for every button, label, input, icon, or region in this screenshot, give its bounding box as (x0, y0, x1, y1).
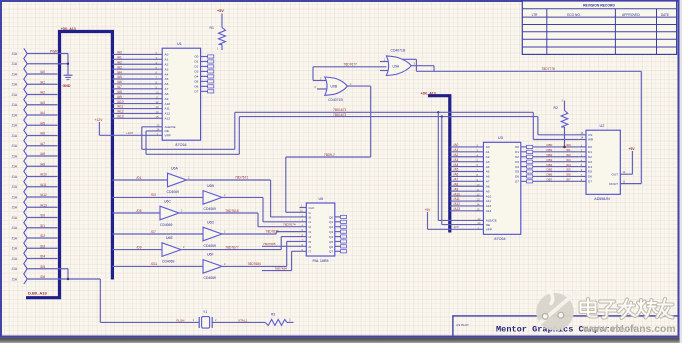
svg-text:U6A: U6A (171, 166, 178, 170)
svg-text:O7: O7 (515, 180, 519, 184)
svg-text:CD4071B: CD4071B (391, 49, 406, 53)
svg-text:I5: I5 (309, 240, 312, 244)
svg-text:J1A: J1A (12, 216, 18, 220)
svg-text:O4: O4 (515, 165, 519, 169)
svg-text:VPP: VPP (165, 134, 171, 138)
svg-text:J1A: J1A (12, 154, 18, 158)
svg-text:/A5: /A5 (117, 75, 122, 79)
svg-text:Q7: Q7 (329, 250, 333, 254)
svg-text:OE: OE (165, 129, 169, 133)
svg-text:J1A: J1A (12, 257, 18, 261)
svg-text:J1A: J1A (12, 247, 18, 251)
svg-text:U6F: U6F (207, 253, 214, 257)
svg-text:PAL 16R8: PAL 16R8 (313, 259, 329, 263)
svg-text:78D7615: 78D7615 (225, 209, 239, 213)
svg-text:/D1: /D1 (566, 148, 571, 152)
svg-text:/A5: /A5 (454, 168, 459, 172)
svg-text:+D0..A13: +D0..A13 (421, 92, 436, 96)
svg-text:/A4: /A4 (117, 70, 122, 74)
svg-text:/A8: /A8 (454, 182, 459, 186)
svg-text:J1A: J1A (12, 277, 18, 281)
svg-text:87C64: 87C64 (175, 143, 186, 147)
svg-text:J1A: J1A (12, 226, 18, 230)
svg-text:DOUT: DOUT (609, 182, 618, 186)
svg-text:78D9-7: 78D9-7 (324, 153, 335, 157)
svg-text:78D1671: 78D1671 (333, 108, 347, 112)
svg-text:/A3: /A3 (454, 158, 459, 162)
svg-text:O3: O3 (515, 160, 519, 164)
svg-text:VPP: VPP (486, 228, 492, 232)
svg-text:U6E: U6E (166, 236, 173, 240)
svg-text:CD4069: CD4069 (204, 244, 217, 248)
svg-text:+5V: +5V (425, 208, 432, 212)
svg-text:R3: R3 (271, 313, 275, 317)
svg-text:AD558JN: AD558JN (594, 197, 610, 201)
svg-text:/A12: /A12 (117, 110, 124, 114)
svg-text:/A11: /A11 (117, 105, 124, 109)
svg-text:O3: O3 (194, 70, 198, 74)
svg-text:O1: O1 (515, 150, 519, 154)
svg-text:/D3: /D3 (40, 244, 45, 248)
svg-text:/A0: /A0 (40, 70, 45, 74)
svg-text:/D4: /D4 (40, 255, 45, 259)
svg-text:O0: O0 (515, 145, 519, 149)
svg-text:U5: U5 (319, 197, 324, 201)
svg-text:/D9: /D9 (137, 245, 142, 249)
svg-text:U2: U2 (600, 124, 605, 128)
svg-text:CLK: CLK (309, 206, 315, 210)
svg-text:/D5: /D5 (566, 168, 571, 172)
svg-text:/A11: /A11 (40, 183, 47, 187)
svg-text:O1: O1 (194, 60, 198, 64)
svg-text:/A0: /A0 (454, 143, 459, 147)
svg-text:/D3: /D3 (151, 193, 156, 197)
svg-text:/D1: /D1 (40, 224, 45, 228)
svg-text:GND: GND (63, 84, 71, 88)
svg-text:Y1: Y1 (203, 310, 207, 314)
svg-text:/D2: /D2 (40, 234, 45, 238)
svg-text:A10: A10 (165, 102, 171, 106)
svg-text:REVISION RECORD: REVISION RECORD (583, 4, 615, 8)
svg-text:DB2: DB2 (547, 153, 553, 157)
svg-text:/A2: /A2 (40, 91, 45, 95)
svg-text:DB0: DB0 (547, 143, 553, 147)
svg-text:J1A: J1A (12, 175, 18, 179)
svg-text:87C64: 87C64 (494, 237, 505, 241)
svg-text:+12V: +12V (95, 118, 104, 122)
svg-text:I3: I3 (309, 230, 312, 234)
svg-text:/A4: /A4 (40, 111, 45, 115)
svg-text:/A9: /A9 (40, 162, 45, 166)
svg-text:/A12: /A12 (40, 193, 47, 197)
svg-text:+12V: +12V (126, 131, 133, 135)
svg-text:/A7: /A7 (117, 85, 122, 89)
svg-text:/A8: /A8 (40, 152, 45, 156)
svg-text:Q1: Q1 (329, 220, 333, 224)
svg-text:A12: A12 (165, 112, 171, 116)
svg-text:D5: D5 (588, 170, 592, 174)
svg-text:A1: A1 (486, 150, 490, 154)
svg-text:CD4069: CD4069 (167, 190, 180, 194)
svg-text:ECO NO.: ECO NO. (567, 13, 581, 17)
svg-text:/A7: /A7 (454, 178, 459, 182)
svg-text:/D0: /D0 (566, 143, 571, 147)
svg-text:A0: A0 (486, 145, 490, 149)
svg-text:O0: O0 (194, 55, 198, 59)
svg-text:APPROVED: APPROVED (622, 13, 640, 17)
svg-text:/A9: /A9 (117, 95, 122, 99)
svg-text:O6: O6 (194, 85, 198, 89)
svg-text:O5: O5 (515, 170, 519, 174)
svg-text:/A12: /A12 (454, 202, 461, 206)
svg-text:/A10: /A10 (117, 100, 124, 104)
svg-text:/A6: /A6 (117, 80, 122, 84)
svg-text:78D7776: 78D7776 (542, 67, 556, 71)
svg-text:I6: I6 (309, 245, 312, 249)
svg-text:I0: I0 (309, 215, 312, 219)
svg-text:J1A: J1A (12, 124, 18, 128)
svg-text:/A13: /A13 (454, 207, 461, 211)
svg-text:J1A: J1A (12, 134, 18, 138)
svg-text:A1: A1 (165, 58, 169, 62)
svg-text:XTAL1: XTAL1 (238, 319, 248, 323)
svg-text:PWR: PWR (50, 50, 58, 54)
svg-text:CD4069: CD4069 (204, 207, 217, 211)
svg-text:/A2: /A2 (117, 60, 122, 64)
svg-text:U1: U1 (177, 42, 182, 46)
svg-text:/D4: /D4 (566, 163, 571, 167)
svg-text:J1A: J1A (12, 62, 18, 66)
svg-text:A0: A0 (165, 53, 169, 57)
svg-text:-12V: -12V (453, 225, 459, 229)
svg-text:A11: A11 (165, 107, 171, 111)
svg-text:A4: A4 (165, 72, 169, 76)
svg-text:J1A: J1A (12, 144, 18, 148)
svg-text:78D7677: 78D7677 (344, 63, 358, 67)
svg-text:/D1: /D1 (137, 176, 142, 180)
svg-text:A7: A7 (486, 180, 490, 184)
svg-text:R2: R2 (554, 106, 558, 110)
svg-text:A9: A9 (165, 97, 169, 101)
svg-text:D1: D1 (588, 150, 592, 154)
svg-text:J1A: J1A (12, 103, 18, 107)
svg-text:78D7671: 78D7671 (235, 176, 249, 180)
svg-text:/D5: /D5 (137, 209, 142, 213)
svg-text:I4: I4 (309, 235, 312, 239)
svg-text:/A4: /A4 (454, 163, 459, 167)
svg-text:A8: A8 (165, 92, 169, 96)
svg-text:CD4071B: CD4071B (328, 98, 343, 102)
svg-text:A2: A2 (486, 155, 490, 159)
svg-text:A2: A2 (165, 62, 169, 66)
svg-text:J1A: J1A (12, 185, 18, 189)
svg-text:+5V: +5V (629, 147, 636, 151)
svg-text:/A9: /A9 (454, 187, 459, 191)
svg-text:A11: A11 (486, 199, 492, 203)
svg-text:J1A: J1A (12, 206, 18, 210)
svg-text:Q0: Q0 (329, 215, 333, 219)
svg-text:J1A: J1A (12, 93, 18, 97)
svg-text:78D7674: 78D7674 (283, 222, 296, 226)
svg-text:78D7677: 78D7677 (225, 245, 239, 249)
svg-text:OUT: OUT (611, 172, 618, 176)
svg-text:U6D: U6D (207, 221, 214, 225)
svg-text:D4: D4 (588, 165, 592, 169)
svg-text:/D2: /D2 (566, 153, 571, 157)
svg-text:78D1672: 78D1672 (333, 113, 347, 117)
svg-text:+D0..A13: +D0..A13 (61, 27, 76, 31)
svg-text:J1A: J1A (12, 195, 18, 199)
svg-text:A6: A6 (165, 82, 169, 86)
svg-text:A5: A5 (486, 170, 490, 174)
svg-text:A13: A13 (165, 117, 171, 121)
svg-text:D2: D2 (588, 155, 592, 159)
svg-text:O2: O2 (194, 65, 198, 69)
svg-text:Q4: Q4 (329, 235, 333, 239)
svg-text:O6: O6 (515, 175, 519, 179)
svg-text:/A1: /A1 (40, 80, 45, 84)
svg-text:A8: A8 (486, 184, 490, 188)
svg-text:/A3: /A3 (40, 101, 45, 105)
svg-text:DB4: DB4 (547, 163, 553, 167)
svg-text:DB5: DB5 (547, 168, 553, 172)
svg-text:A12: A12 (486, 204, 492, 208)
svg-text:/A10: /A10 (454, 192, 461, 196)
svg-text:/A10: /A10 (40, 173, 47, 177)
svg-text:/A1: /A1 (117, 56, 122, 60)
svg-text:DB1: DB1 (547, 148, 553, 152)
svg-text:LTR: LTR (532, 13, 538, 17)
svg-text:www.elecfans.com: www.elecfans.com (582, 324, 676, 335)
svg-text:J1A: J1A (12, 72, 18, 76)
svg-text:I2: I2 (309, 225, 312, 229)
svg-text:D3: D3 (588, 160, 592, 164)
svg-text:/A3: /A3 (117, 65, 122, 69)
svg-text:J1A: J1A (12, 236, 18, 240)
svg-text:O5: O5 (194, 80, 198, 84)
svg-text:/D0: /D0 (40, 214, 45, 218)
svg-text:J1A: J1A (12, 83, 18, 87)
svg-text:O2: O2 (515, 155, 519, 159)
svg-text:J1A: J1A (12, 113, 18, 117)
svg-text:/A11: /A11 (454, 197, 461, 201)
svg-text:O4: O4 (194, 75, 198, 79)
svg-text:A4: A4 (486, 165, 490, 169)
svg-text:A9: A9 (486, 189, 490, 193)
svg-text:CD4069: CD4069 (204, 276, 217, 280)
svg-text:A6: A6 (486, 175, 490, 179)
svg-text:D.B0..A13: D.B0..A13 (28, 290, 47, 295)
svg-text:Q3: Q3 (329, 230, 333, 234)
svg-text:DATE: DATE (661, 13, 669, 17)
svg-text:/A2: /A2 (454, 153, 459, 157)
svg-text:/D6: /D6 (566, 173, 571, 177)
svg-text:CS: CS (588, 133, 592, 137)
svg-text:/A0: /A0 (117, 51, 122, 55)
svg-text:/D6: /D6 (40, 275, 45, 279)
svg-text:/A6: /A6 (454, 173, 459, 177)
svg-text:D7: D7 (588, 180, 592, 184)
svg-text:U6B: U6B (207, 184, 214, 188)
svg-text:U3: U3 (498, 136, 503, 140)
svg-text:Q6: Q6 (329, 245, 333, 249)
svg-text:D0: D0 (588, 145, 592, 149)
svg-text:/D3: /D3 (566, 158, 571, 162)
svg-text:CD4069: CD4069 (160, 223, 173, 227)
svg-text:/D7: /D7 (151, 230, 156, 234)
svg-text:DB6: DB6 (547, 173, 553, 177)
svg-text:4.9 PLOT: 4.9 PLOT (456, 323, 469, 327)
svg-text:/D5: /D5 (40, 265, 45, 269)
svg-text:78D7685: 78D7685 (263, 242, 276, 246)
svg-text:D6: D6 (588, 175, 592, 179)
svg-text:DB3: DB3 (547, 158, 553, 162)
svg-text:/A1: /A1 (454, 148, 459, 152)
svg-text:U9A: U9A (393, 65, 400, 69)
svg-text:A10: A10 (486, 194, 492, 198)
svg-text:/A7: /A7 (40, 142, 45, 146)
svg-text:U9B: U9B (331, 85, 338, 89)
svg-text:DB7: DB7 (547, 178, 553, 182)
svg-text:A3: A3 (486, 160, 490, 164)
svg-text:FLSH: FLSH (177, 319, 185, 323)
svg-text:/A13: /A13 (117, 115, 124, 119)
svg-text:78D7676: 78D7676 (266, 230, 280, 234)
svg-text:Q5: Q5 (329, 240, 333, 244)
svg-text:WR: WR (588, 138, 594, 142)
svg-text:A13: A13 (486, 209, 492, 213)
svg-text:J1A: J1A (12, 52, 18, 56)
svg-text:/A6: /A6 (40, 132, 45, 136)
svg-text:/A5: /A5 (40, 121, 45, 125)
svg-text:Q2: Q2 (329, 225, 333, 229)
svg-text:/A13: /A13 (40, 203, 47, 207)
svg-text:A5: A5 (165, 77, 169, 81)
svg-text:/A8: /A8 (117, 90, 122, 94)
svg-text:/D11: /D11 (151, 262, 158, 266)
svg-text:+5V: +5V (217, 9, 224, 13)
svg-text:78D7684: 78D7684 (275, 266, 288, 270)
svg-text:J1A: J1A (12, 165, 18, 169)
svg-text:I1: I1 (309, 220, 312, 224)
svg-text:O7: O7 (194, 90, 198, 94)
svg-text:U6C: U6C (164, 199, 171, 203)
svg-text:CD4069: CD4069 (162, 259, 175, 263)
svg-text:I7: I7 (309, 250, 312, 254)
svg-text:78D7684: 78D7684 (248, 262, 262, 266)
svg-text:R1: R1 (210, 26, 214, 30)
svg-text:A7: A7 (165, 87, 169, 91)
svg-text:/D7: /D7 (566, 178, 571, 182)
svg-text:OE: OE (486, 223, 490, 227)
svg-text:A3: A3 (165, 67, 169, 71)
svg-text:J1A: J1A (12, 267, 18, 271)
